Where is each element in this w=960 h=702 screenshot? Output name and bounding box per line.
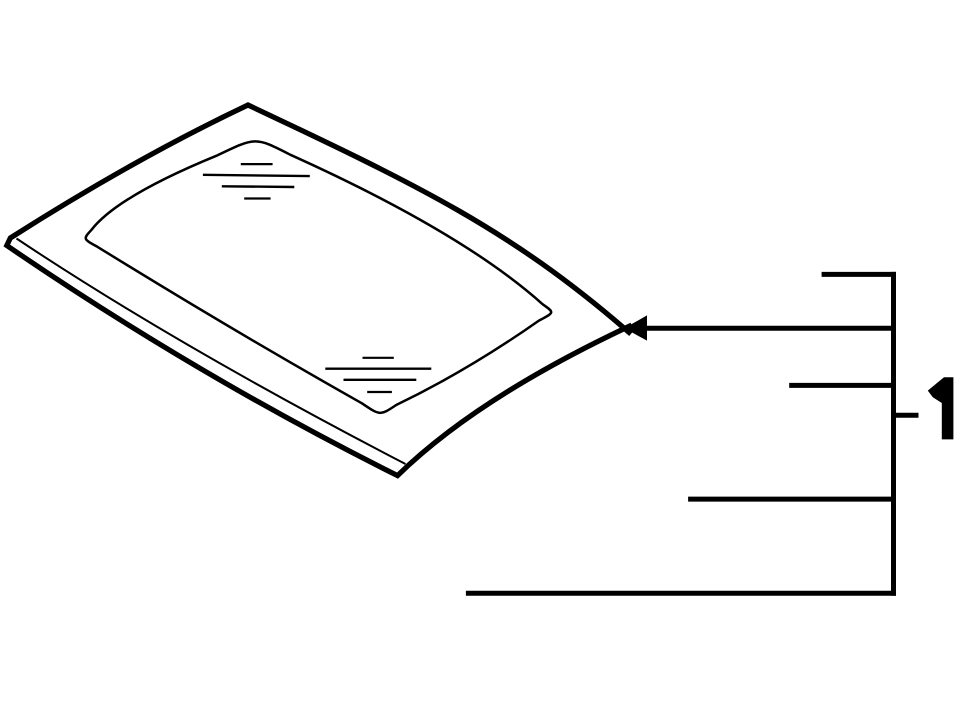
bracket lower line: [688, 497, 891, 502]
hatch mark top 2: [203, 175, 310, 176]
hatch mark bottom 3: [344, 379, 417, 381]
glass panel outer edge silhouette: [7, 105, 632, 476]
leader arrowhead: [624, 315, 647, 340]
bracket top line: [822, 272, 896, 277]
glass thickness edge line: [17, 239, 406, 465]
hatch mark top 4: [244, 197, 270, 199]
hatch mark bottom 2: [325, 368, 431, 370]
bracket vertical line: [891, 272, 896, 596]
bracket middle line: [789, 383, 891, 388]
hatch mark bottom 1: [363, 357, 394, 359]
hatch mark top 3: [222, 185, 294, 188]
leader arrow line: [646, 326, 896, 331]
bracket bottom line: [466, 591, 896, 596]
label tick: [895, 413, 919, 418]
hatch mark bottom 4: [367, 391, 392, 393]
glass inner border line: [86, 141, 551, 412]
hatch mark top 1: [241, 163, 273, 165]
label 1: [928, 377, 954, 439]
